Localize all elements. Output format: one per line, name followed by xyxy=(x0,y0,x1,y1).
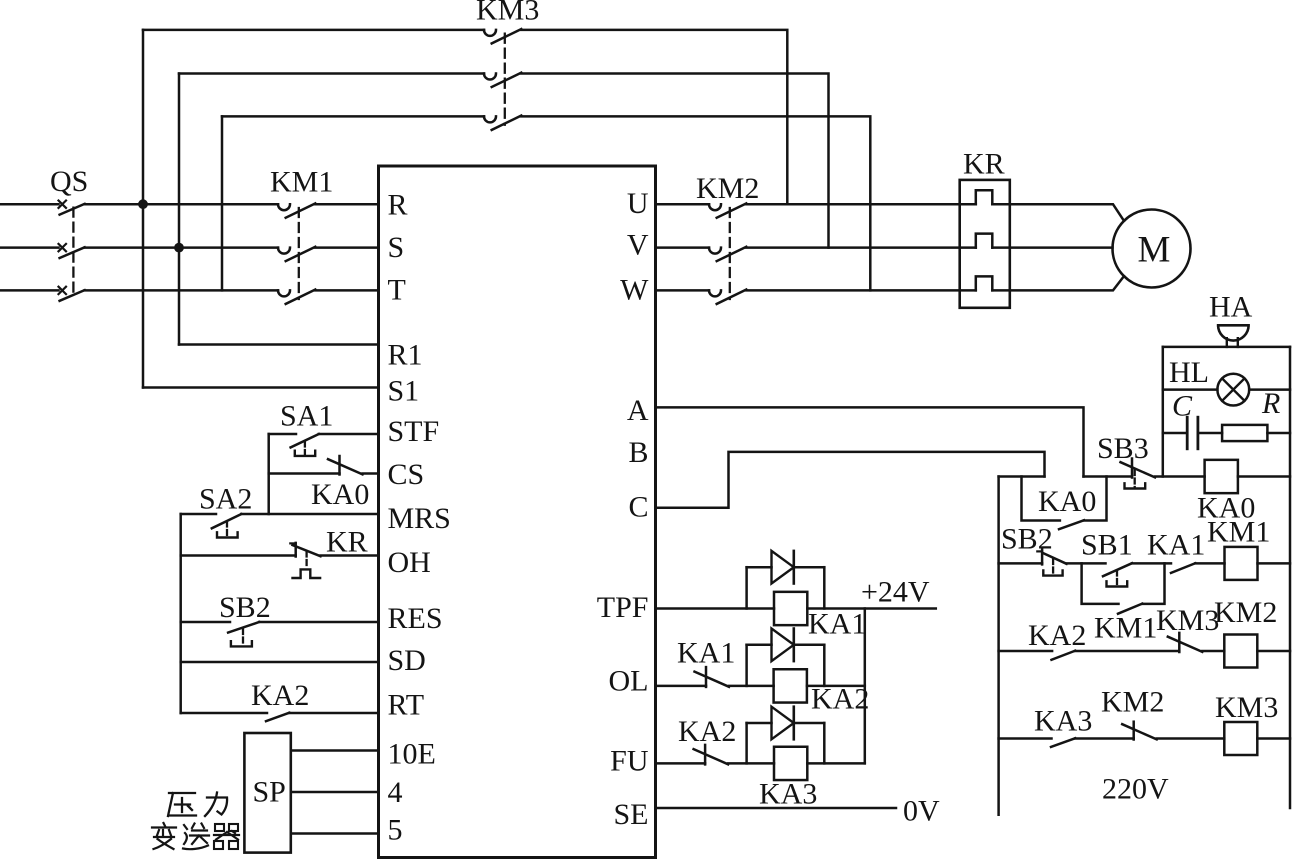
relay contact KA2 NC on FU xyxy=(704,745,707,765)
chinese label 器 xyxy=(215,824,224,831)
svg-text:KA2: KA2 xyxy=(1028,619,1086,652)
svg-text:R: R xyxy=(1261,387,1280,420)
svg-text:4: 4 xyxy=(388,776,403,809)
V wire KR to motor xyxy=(992,246,1112,249)
TPF wire xyxy=(656,607,775,610)
freewheel diode D3 xyxy=(745,723,748,763)
freewheel diode D1 xyxy=(745,567,748,608)
rung4 wire to KM3 coil xyxy=(1157,737,1225,740)
phase R wire QS to KM1 xyxy=(85,203,278,206)
OH wire right xyxy=(321,554,379,557)
rung2 wire SB2 to SB1 xyxy=(1067,562,1106,565)
svg-text:A: A xyxy=(627,394,649,427)
bell HA xyxy=(1218,325,1249,340)
contactor coil KM3 xyxy=(1224,722,1257,755)
motor M circle xyxy=(1113,210,1191,288)
alarm box left rail xyxy=(1162,347,1165,477)
rung4 wire to right rail xyxy=(1257,737,1290,740)
interlock contact KM3 NC xyxy=(1178,633,1181,652)
OL wire right xyxy=(807,685,865,688)
rung2 wire SB1 to KA1 xyxy=(1132,562,1171,565)
QS linkage dashed xyxy=(72,208,74,296)
KM3 bypass wire 2 right xyxy=(521,74,828,248)
contactor coil KM2 xyxy=(1224,635,1257,668)
svg-text:V: V xyxy=(627,229,649,262)
svg-text:S: S xyxy=(388,231,405,264)
rung1 wire A-drop to SB3 xyxy=(1084,475,1133,478)
4 wire xyxy=(291,791,379,794)
relay contact KM1 seal blade xyxy=(1118,604,1142,614)
KA0 seal branch xyxy=(1022,477,1060,521)
relay contact KA1 blade rung2 xyxy=(1171,563,1195,573)
svg-text:CS: CS xyxy=(388,458,425,491)
contactor KM1 pole 2 xyxy=(278,248,290,254)
svg-text:TPF: TPF xyxy=(597,591,649,624)
MRS wire right xyxy=(241,513,378,516)
S1 wire xyxy=(143,386,379,389)
svg-text:QS: QS xyxy=(50,165,88,198)
svg-text:220V: 220V xyxy=(1102,773,1169,806)
contactor KM1 pole 3 xyxy=(278,290,290,296)
W wire inverter to KM2 xyxy=(656,289,710,292)
HL lamp branch wire right xyxy=(1249,388,1290,391)
svg-text:SA2: SA2 xyxy=(199,483,252,516)
rung1 left segment xyxy=(999,475,1045,478)
resistor R xyxy=(1222,425,1267,441)
RT wire right xyxy=(289,712,378,715)
phase T incoming wire xyxy=(0,289,59,292)
svg-text:U: U xyxy=(627,187,649,220)
KM3 bypass wire 3 right xyxy=(521,116,870,290)
rung2 wire from rail xyxy=(999,562,1043,565)
rung3 wire to right rail xyxy=(1257,650,1290,653)
svg-text:KA3: KA3 xyxy=(1034,705,1092,738)
rung4 wire KA3 to KM2 xyxy=(1075,737,1134,740)
svg-text:SB3: SB3 xyxy=(1097,432,1149,465)
contactor KM3 pole 2 xyxy=(484,74,496,80)
contactor KM3 pole 1 xyxy=(484,30,496,36)
KM3 bypass wire 1 left xyxy=(143,29,484,32)
vertical wire R-tap to S1/KM3 xyxy=(142,30,145,388)
inverter main box xyxy=(379,166,656,858)
svg-text:KR: KR xyxy=(326,526,368,559)
contactor KM1 pole 1 xyxy=(278,204,290,210)
svg-text:SP: SP xyxy=(253,776,286,809)
FU wire right xyxy=(807,762,865,765)
10E wire xyxy=(291,749,379,752)
interlock contact KM2 NC xyxy=(1132,722,1135,740)
selector switch SA2 blade xyxy=(212,514,242,528)
svg-text:STF: STF xyxy=(388,415,440,448)
svg-text:C: C xyxy=(1172,390,1193,423)
svg-text:RT: RT xyxy=(388,689,425,722)
node dot S xyxy=(175,243,184,252)
rung4 wire from rail xyxy=(999,737,1052,740)
relay coil KA1 xyxy=(774,592,807,625)
CS wire xyxy=(269,472,340,475)
STF wire right xyxy=(319,433,379,436)
R1 wire xyxy=(179,343,379,346)
disconnect switch QS pole 3 xyxy=(59,287,67,294)
svg-text:KM1: KM1 xyxy=(270,166,333,199)
SB2 operator rung2 xyxy=(1052,559,1054,575)
SD wire xyxy=(181,661,379,664)
RC branch wire left xyxy=(1163,432,1187,435)
svg-text:SB1: SB1 xyxy=(1081,529,1133,562)
rung1 wire to right rail xyxy=(1238,475,1290,478)
SB1 operator xyxy=(1116,571,1118,586)
phase T wire QS to KM1 xyxy=(85,289,278,292)
RC branch wire right xyxy=(1267,432,1290,435)
svg-text:KM2: KM2 xyxy=(1101,686,1164,719)
KM1 linkage dashed xyxy=(298,208,300,299)
KR heater element 2 xyxy=(976,234,993,248)
U wire KR to motor xyxy=(992,204,1124,221)
rung3 wire from rail xyxy=(999,650,1053,653)
MRS wire xyxy=(181,513,216,516)
C output wire xyxy=(656,452,1045,508)
SA2 operator xyxy=(226,522,228,537)
selector switch SA1 blade xyxy=(291,434,319,447)
rung1 wire SB3 to KA0 coil xyxy=(1155,475,1205,478)
svg-text:OH: OH xyxy=(388,546,431,579)
svg-text:KA1: KA1 xyxy=(1147,529,1205,562)
contactor KM2 pole 3 xyxy=(709,290,721,296)
svg-text:KA0: KA0 xyxy=(311,478,369,511)
svg-text:+24V: +24V xyxy=(861,576,930,609)
svg-text:KA0: KA0 xyxy=(1038,485,1096,518)
KA0 seal branch right xyxy=(1084,477,1107,521)
HL lamp branch wire left xyxy=(1163,388,1218,391)
svg-text:KM3: KM3 xyxy=(1156,604,1219,637)
thermal relay KR box xyxy=(960,180,1010,308)
phase S incoming wire xyxy=(0,246,59,249)
vertical wire T-tap to KM3 xyxy=(221,116,224,290)
svg-text:KA1: KA1 xyxy=(808,608,866,641)
RES wire right xyxy=(259,621,378,624)
phase R incoming wire xyxy=(0,203,59,206)
pushbutton SB2 NC xyxy=(1041,549,1044,565)
CS wire right xyxy=(363,472,379,475)
pressure transmitter SP box xyxy=(244,733,290,853)
chinese label 送 xyxy=(183,824,209,850)
FU wire xyxy=(656,762,706,765)
SE wire xyxy=(656,807,897,810)
ladder left rail xyxy=(997,477,1000,815)
pushbutton SB2 blade xyxy=(228,622,259,633)
24V return rail xyxy=(864,609,867,764)
OH wire xyxy=(181,554,296,557)
svg-text:SE: SE xyxy=(613,798,648,831)
disconnect switch QS pole 2 xyxy=(59,244,67,251)
rung3 wire KA2 to KM3 xyxy=(1075,650,1179,653)
KR heater element 1 xyxy=(976,190,993,204)
svg-text:FU: FU xyxy=(610,744,649,777)
svg-text:R: R xyxy=(388,189,408,222)
STF wire xyxy=(269,433,296,436)
svg-text:KA2: KA2 xyxy=(251,679,309,712)
phase R wire KM1 to inverter xyxy=(315,203,378,206)
SB2 operator xyxy=(242,629,244,645)
5 wire xyxy=(291,832,379,835)
svg-text:SB2: SB2 xyxy=(219,591,271,624)
rung3 wire to KM2 coil xyxy=(1202,650,1224,653)
SB3 operator xyxy=(1134,470,1136,488)
svg-text:W: W xyxy=(620,274,649,307)
left vertical control wire xyxy=(179,514,182,713)
KM3 bypass wire 2 left xyxy=(179,72,484,75)
svg-text:MRS: MRS xyxy=(388,502,451,535)
svg-text:0V: 0V xyxy=(903,795,940,828)
svg-text:T: T xyxy=(388,274,406,307)
svg-text:KM1: KM1 xyxy=(1094,612,1157,645)
rung2 wire KA1 to KM1 coil xyxy=(1195,562,1224,565)
FU wire mid xyxy=(728,762,774,765)
V wire inverter to KM2 xyxy=(656,246,710,249)
svg-text:C: C xyxy=(628,491,648,524)
vertical wire S-tap to R1/KM3 xyxy=(178,74,181,345)
contactor KM2 pole 1 xyxy=(709,204,721,210)
relay contact KA3 blade rung4 xyxy=(1051,738,1075,747)
svg-text:RES: RES xyxy=(388,602,443,635)
contactor KM2 pole 2 xyxy=(709,248,721,254)
relay coil KA0 xyxy=(1205,460,1238,493)
svg-text:R1: R1 xyxy=(388,339,423,372)
svg-text:KM3: KM3 xyxy=(1215,691,1278,724)
thermal contact KR NC on OH xyxy=(294,543,297,557)
chinese label 压 (pressure) xyxy=(168,793,196,816)
svg-text:SB2: SB2 xyxy=(1001,523,1053,556)
svg-text:HL: HL xyxy=(1169,356,1209,389)
KR heater element 3 xyxy=(976,276,993,290)
KM1 seal bypass left xyxy=(1082,563,1119,604)
svg-text:KR: KR xyxy=(963,148,1005,181)
RC branch wire mid xyxy=(1198,432,1222,435)
freewheel diode D2 xyxy=(745,645,748,686)
OL wire mid xyxy=(729,685,774,688)
relay coil KA2 xyxy=(774,669,807,702)
svg-text:KA1: KA1 xyxy=(677,637,735,670)
phase S wire KM1 to inverter xyxy=(315,246,378,249)
V wire KM2 to KR xyxy=(746,246,976,249)
svg-text:B: B xyxy=(628,436,648,469)
svg-text:KA2: KA2 xyxy=(678,715,736,748)
relay contact KA0 NC on CS xyxy=(338,456,341,475)
vertical STF-CS-MRS wire xyxy=(267,434,270,514)
ladder right rail xyxy=(1289,347,1292,808)
RT wire xyxy=(181,712,267,715)
KM3 bypass wire 3 left xyxy=(222,115,484,118)
U wire KM2 to KR xyxy=(746,203,976,206)
node dot R xyxy=(139,200,148,209)
chinese label 变 xyxy=(152,823,176,849)
W wire KM2 to KR xyxy=(746,289,976,292)
contactor KM3 pole 3 xyxy=(484,116,496,122)
KM2 linkage dashed xyxy=(729,208,731,299)
disconnect switch QS pole 1 xyxy=(59,201,67,208)
phase S wire QS to KM1 xyxy=(85,246,278,249)
+24V wire xyxy=(807,607,936,610)
relay coil KA3 xyxy=(774,747,807,780)
svg-text:KA2: KA2 xyxy=(811,683,869,716)
OL wire xyxy=(656,685,707,688)
svg-text:OL: OL xyxy=(609,664,649,697)
svg-text:SD: SD xyxy=(388,644,426,677)
W wire KR to motor xyxy=(992,276,1124,290)
svg-text:KM3: KM3 xyxy=(476,0,539,27)
KM1 seal bypass right xyxy=(1142,563,1164,604)
capacitor C xyxy=(1186,417,1189,449)
svg-text:KM2: KM2 xyxy=(696,172,759,205)
relay contact KA2 blade rung3 xyxy=(1052,651,1076,660)
rung2 wire to right rail xyxy=(1258,562,1291,565)
svg-text:KM2: KM2 xyxy=(1214,596,1277,629)
relay contact KA1 NC on OL xyxy=(705,667,708,687)
pushbutton SB1 blade xyxy=(1103,563,1132,576)
SA1 operator xyxy=(304,442,306,455)
KM3 linkage dashed xyxy=(504,34,506,125)
chinese label 力 xyxy=(205,793,227,817)
KM3 bypass wire 1 right xyxy=(521,30,787,204)
U wire inverter to KM2 xyxy=(656,203,710,206)
relay contact KA0 seal blade xyxy=(1059,520,1084,529)
svg-text:5: 5 xyxy=(388,814,403,847)
KR thermal operator xyxy=(305,552,307,567)
svg-text:M: M xyxy=(1138,230,1171,271)
pushbutton SB3 NC xyxy=(1131,459,1134,478)
svg-text:KM1: KM1 xyxy=(1207,516,1270,549)
svg-text:S1: S1 xyxy=(388,375,420,408)
A output wire xyxy=(656,407,1084,476)
contactor coil KM1 xyxy=(1225,547,1258,580)
svg-text:10E: 10E xyxy=(388,738,436,771)
svg-text:HA: HA xyxy=(1209,291,1253,324)
svg-text:KA3: KA3 xyxy=(759,778,817,811)
relay contact KA2 blade on RT xyxy=(266,713,289,722)
svg-text:SA1: SA1 xyxy=(280,400,333,433)
RES wire xyxy=(181,621,230,624)
lamp HL xyxy=(1217,374,1249,406)
phase T wire KM1 to inverter xyxy=(315,289,378,292)
alarm box top wire xyxy=(1163,346,1290,349)
